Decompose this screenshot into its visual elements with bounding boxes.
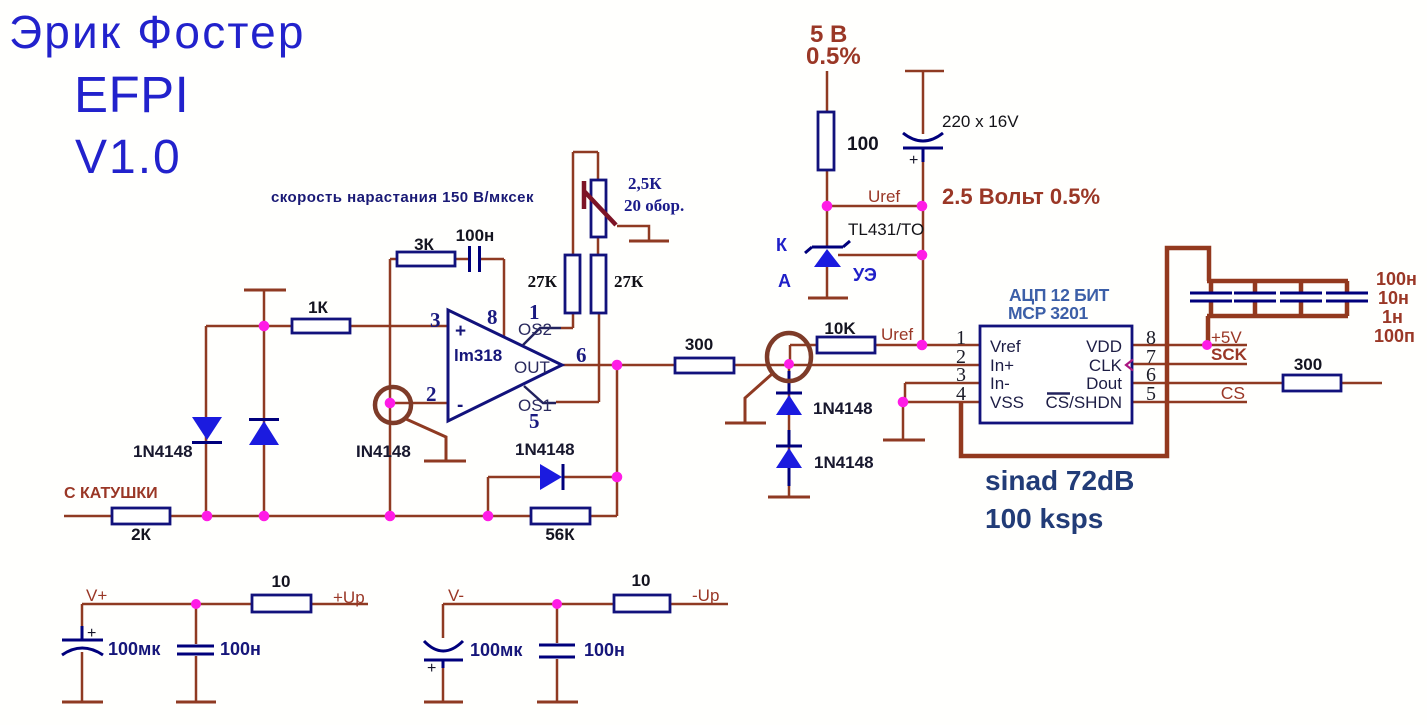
wire VSS decoupling loop (thick) xyxy=(961,248,1209,456)
diode D5 1N4148 clamp xyxy=(776,445,802,448)
ground pot wiper xyxy=(629,240,669,243)
resistor 56K xyxy=(531,508,590,524)
TL431 U2 xyxy=(805,241,850,253)
wire pin6 Dout xyxy=(1132,382,1382,385)
capacitor C100uF V+ xyxy=(62,626,103,655)
wire feedback diode stubs xyxy=(488,477,617,516)
svg-text:100: 100 xyxy=(847,134,879,155)
svg-text:1N4148: 1N4148 xyxy=(515,440,575,459)
wire 3K-100n branch xyxy=(390,259,504,337)
svg-text:MCP 3201: MCP 3201 xyxy=(1008,303,1089,323)
wire OS2 xyxy=(561,313,573,328)
svg-text:1N4148: 1N4148 xyxy=(814,453,874,472)
title text xyxy=(9,6,534,206)
svg-text:VDD: VDD xyxy=(1086,337,1122,356)
svg-text:С КАТУШКИ: С КАТУШКИ xyxy=(64,485,158,502)
svg-text:К: К xyxy=(776,235,788,255)
svg-text:300: 300 xyxy=(1294,355,1322,374)
resistor 10 minus xyxy=(614,595,670,612)
svg-text:10K: 10K xyxy=(824,319,856,338)
wire Uref horizontal xyxy=(827,205,922,208)
wire inverting input vertical xyxy=(389,259,392,516)
svg-text:100н: 100н xyxy=(1376,269,1417,289)
wire 5V supply xyxy=(826,71,829,247)
svg-text:sinad 72dB: sinad 72dB xyxy=(985,465,1134,496)
svg-text:_CS: _CS xyxy=(1210,383,1245,404)
svg-text:УЭ: УЭ xyxy=(853,265,877,285)
resistor 10K xyxy=(817,337,875,353)
wire pin8 VDD xyxy=(1132,344,1247,347)
svg-text:100 ksps: 100 ksps xyxy=(985,503,1103,534)
wire 27K top leads xyxy=(573,152,598,255)
wire V- cap leads xyxy=(443,604,557,701)
wire diode D2 branch xyxy=(263,290,266,516)
op-amp U1 lm318 xyxy=(448,310,562,421)
node circle annotation op-amp xyxy=(375,387,411,423)
svg-text:АЦП 12 БИТ: АЦП 12 БИТ xyxy=(1009,285,1110,305)
capacitor C220 220x16V xyxy=(903,133,943,162)
wire pin3 In- xyxy=(905,383,980,402)
svg-text:100п: 100п xyxy=(1374,326,1415,346)
svg-text:Uref: Uref xyxy=(881,325,913,344)
svg-text:+Up: +Up xyxy=(333,588,365,607)
wire cap bank bottom bus xyxy=(1207,314,1348,319)
svg-text:OUT: OUT xyxy=(514,358,550,377)
resistor 1K xyxy=(292,319,350,333)
resistor 300 right xyxy=(1283,375,1341,391)
svg-text:0.5%: 0.5% xyxy=(806,43,861,70)
capacitor C220 leads xyxy=(905,71,944,345)
svg-text:Vref: Vref xyxy=(990,337,1021,356)
svg-text:Uref: Uref xyxy=(868,187,900,206)
wire clamp diode column xyxy=(788,365,791,496)
svg-text:4: 4 xyxy=(956,383,966,405)
resistor 2K xyxy=(112,508,170,524)
wire feedback vertical xyxy=(616,365,619,516)
svg-text:300: 300 xyxy=(685,335,713,354)
svg-text:100н: 100н xyxy=(220,639,261,659)
svg-text:3К: 3К xyxy=(414,235,434,254)
svg-text:lm318: lm318 xyxy=(454,346,502,365)
wire diode D1 branch xyxy=(205,326,208,516)
resistor 10 plus xyxy=(252,595,311,612)
svg-text:-: - xyxy=(457,395,463,416)
capacitor C100n V+ xyxy=(177,646,214,654)
svg-text:5: 5 xyxy=(1146,383,1156,405)
svg-text:3: 3 xyxy=(430,308,441,332)
ground TL431 xyxy=(808,297,848,300)
svg-text:2.5 Вольт 0.5%: 2.5 Вольт 0.5% xyxy=(942,184,1100,209)
svg-text:VSS: VSS xyxy=(990,393,1024,412)
svg-text:CS/SHDN: CS/SHDN xyxy=(1045,393,1122,412)
node circle annotation ADC input xyxy=(767,333,811,381)
svg-text:1N4148: 1N4148 xyxy=(133,442,193,461)
ground V- caps xyxy=(424,701,578,704)
svg-text:56К: 56К xyxy=(545,525,575,544)
diode D1 1N4148 down xyxy=(192,417,222,440)
wire TL431 reference xyxy=(838,254,922,257)
wire input rail xyxy=(64,515,617,518)
wire pin5 CS xyxy=(1132,401,1247,404)
svg-text:SCK: SCK xyxy=(1211,345,1248,364)
wire OS1 xyxy=(556,313,599,402)
svg-text:1N4148: 1N4148 xyxy=(813,399,873,418)
resistor 27K right xyxy=(591,255,606,313)
svg-text:2К: 2К xyxy=(131,525,151,544)
resistor 27K left xyxy=(565,255,580,313)
ground top input xyxy=(244,289,286,292)
ground clamp diodes xyxy=(768,496,810,499)
diode D4 1N4148 clamp xyxy=(776,371,802,393)
ground VSS xyxy=(883,439,925,442)
ground V+ caps xyxy=(62,701,216,704)
node dots xyxy=(202,511,213,522)
svg-text:OS2: OS2 xyxy=(518,320,552,339)
svg-text:27К: 27К xyxy=(614,272,644,291)
svg-text:10н: 10н xyxy=(1378,288,1409,308)
svg-text:In-: In- xyxy=(990,374,1010,393)
wire cap bank connectors xyxy=(1211,281,1347,316)
svg-text:V-: V- xyxy=(448,586,464,605)
svg-text:100мк: 100мк xyxy=(108,639,161,659)
CLK input arrow xyxy=(1126,360,1133,371)
wire pin4 VSS xyxy=(903,401,980,404)
svg-text:+: + xyxy=(455,321,466,342)
svg-text:+: + xyxy=(909,152,918,169)
capacitor C100uF V- xyxy=(424,641,463,668)
wire pin2 xyxy=(390,402,448,405)
svg-text:скорость нарастания 150 В/мксе: скорость нарастания 150 В/мксек xyxy=(271,189,534,206)
svg-text:А: А xyxy=(778,271,791,291)
svg-text:10: 10 xyxy=(632,571,651,590)
wire V+ cap leads xyxy=(82,604,196,701)
diode D3 1N4148 feedback xyxy=(540,464,562,490)
wire TL431 anode xyxy=(826,267,829,298)
resistor 3K xyxy=(397,252,455,266)
svg-text:V+: V+ xyxy=(86,586,107,605)
capacitor bank C 100n 10n 1n 100p xyxy=(1190,293,1368,301)
svg-text:1н: 1н xyxy=(1382,307,1403,327)
svg-text:20 обор.: 20 обор. xyxy=(624,196,684,215)
svg-text:V1.0: V1.0 xyxy=(75,131,182,184)
svg-text:Dout: Dout xyxy=(1086,374,1122,393)
svg-text:1К: 1К xyxy=(308,298,328,317)
wire pot wiper to ground xyxy=(617,226,649,241)
wire input top xyxy=(206,325,448,328)
resistor 100 vertical xyxy=(818,112,834,170)
wire cap bank top bus xyxy=(1207,279,1348,284)
svg-text:10: 10 xyxy=(272,572,291,591)
wire pin7 CLK xyxy=(1132,363,1247,366)
svg-text:OS1: OS1 xyxy=(518,396,552,415)
svg-text:100мк: 100мк xyxy=(470,640,523,660)
capacitor 100n compensation xyxy=(470,246,480,272)
svg-text:In+: In+ xyxy=(990,356,1014,375)
wire V+ rail xyxy=(82,603,368,606)
potentiometer 2,5K xyxy=(591,180,606,237)
svg-text:+: + xyxy=(87,625,96,642)
svg-text:220 x 16V: 220 x 16V xyxy=(942,112,1019,131)
svg-text:TL431/TO: TL431/TO xyxy=(848,220,924,239)
svg-text:+: + xyxy=(427,660,436,677)
resistor 300 left xyxy=(675,358,734,373)
wire VSS ground stub xyxy=(902,402,905,439)
diode D2 1N4148 up xyxy=(249,418,279,421)
capacitor C100n V- xyxy=(539,645,575,657)
svg-text:27К: 27К xyxy=(528,272,558,291)
svg-text:-Up: -Up xyxy=(692,586,719,605)
svg-text:IN4148: IN4148 xyxy=(356,442,411,461)
wire 10K row xyxy=(790,345,980,364)
wire V- rail xyxy=(443,603,728,606)
svg-text:2,5К: 2,5К xyxy=(628,174,662,193)
wire +5V drop xyxy=(1206,316,1211,343)
svg-text:Эрик Фостер: Эрик Фостер xyxy=(9,6,306,58)
svg-text:8: 8 xyxy=(487,305,498,329)
ADC U3 MCP3201 xyxy=(980,326,1132,423)
svg-text:CLK: CLK xyxy=(1089,356,1123,375)
svg-text:100н: 100н xyxy=(584,640,625,660)
svg-text:EFPI: EFPI xyxy=(74,66,189,123)
wire OUT to In+ xyxy=(562,364,980,367)
svg-text:6: 6 xyxy=(576,343,587,367)
svg-text:2: 2 xyxy=(426,382,437,406)
svg-text:100н: 100н xyxy=(456,226,495,245)
